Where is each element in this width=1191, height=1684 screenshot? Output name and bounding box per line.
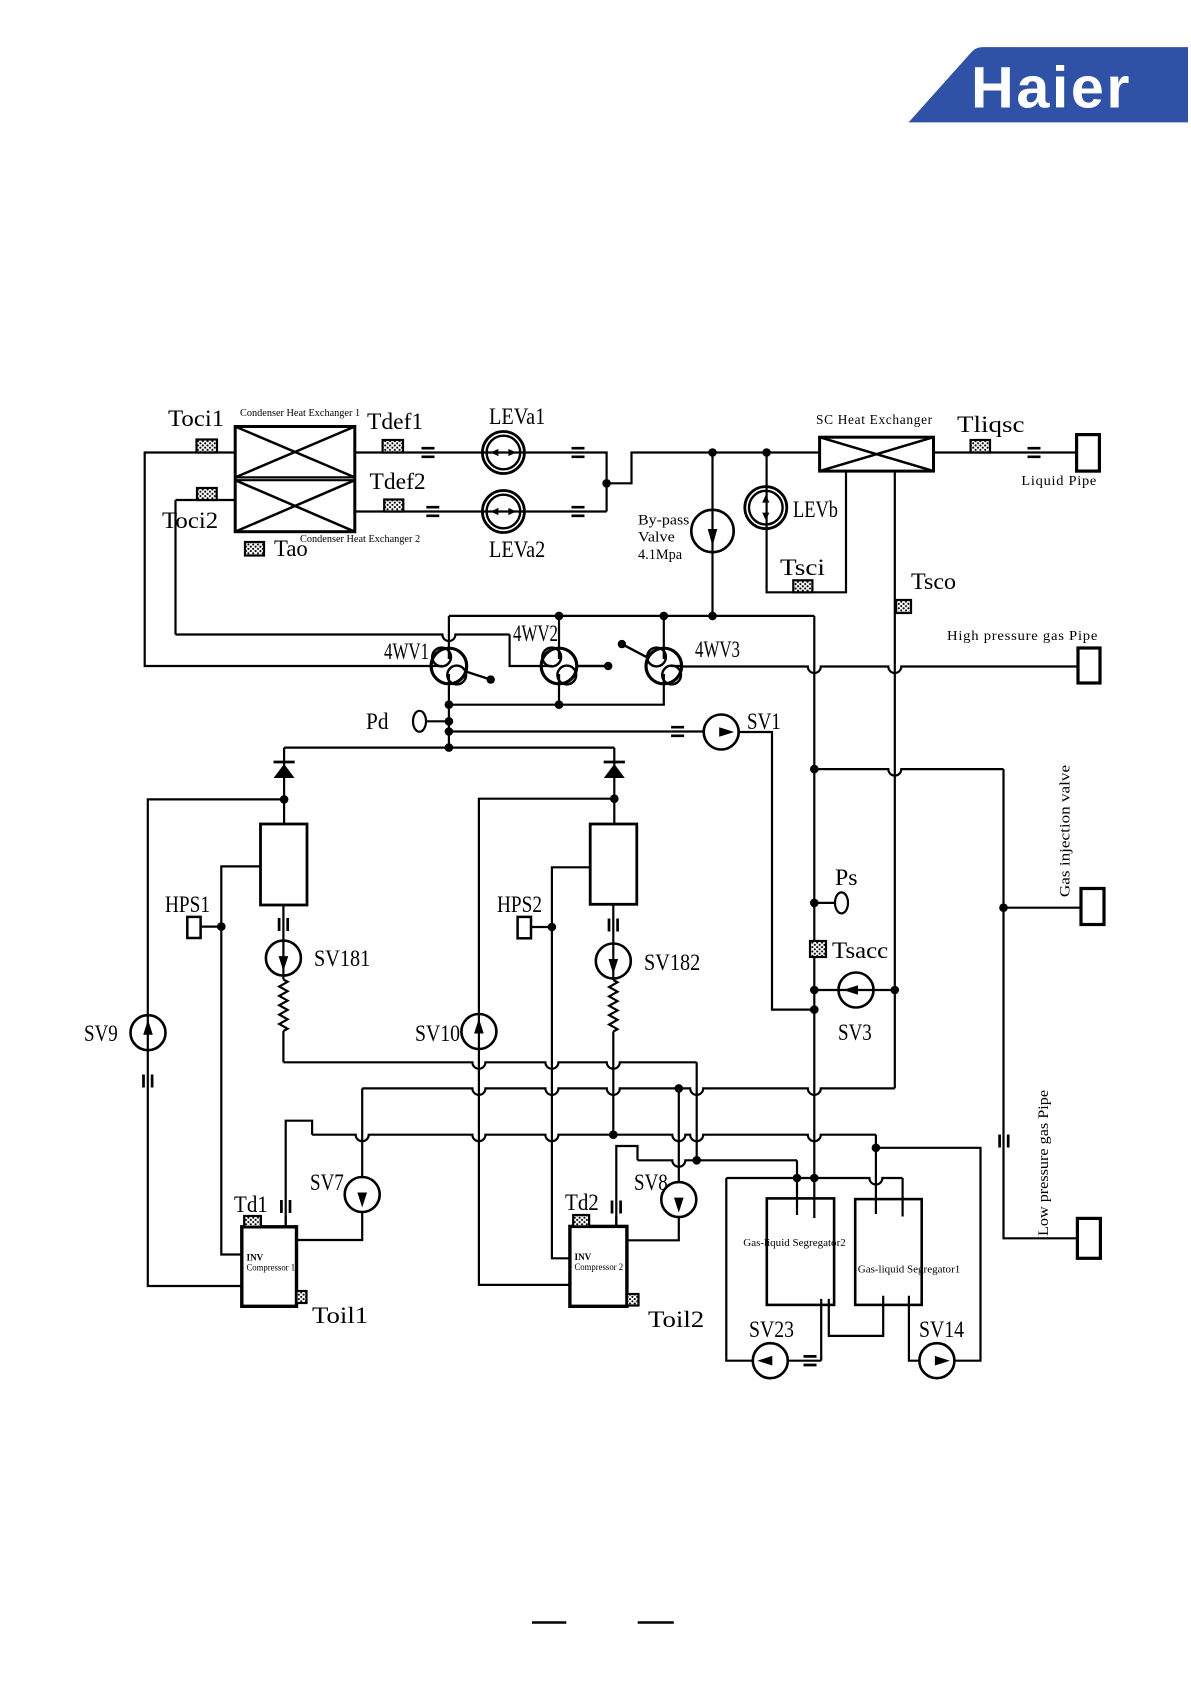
wire HPS1 drop to compressor1 [221,866,260,1254]
svg-text:LEVa2: LEVa2 [489,537,545,562]
wire by-pass valve branch [711,453,713,616]
node gas injection terminal tap [999,903,1008,912]
svg-text:Gas-liquid Segregator1: Gas-liquid Segregator1 [858,1265,961,1276]
node gas injection tap [810,765,819,774]
svg-text:Liquid Pipe: Liquid Pipe [1021,474,1097,489]
wire compressor1 discharge stub [285,1216,287,1227]
expansion valve LEVa2 [482,491,524,533]
temp sensor Tao [245,542,264,556]
capillary tube below SV182 [609,980,617,1032]
svg-text:Td1: Td1 [234,1192,268,1217]
wire 4WV2 vertical [558,616,560,705]
gas-liquid segregator 2 vessel [767,1198,834,1305]
wire SV9 branch to compressor1 [148,799,284,1286]
node SV3 right [891,986,900,995]
union before SV1 [671,727,684,736]
SC HE cross [820,437,934,471]
svg-text:SV9: SV9 [84,1021,118,1046]
wire oil return bus A [283,1062,696,1069]
union on low pressure vertical [1000,1135,1009,1148]
wire Toci2 line to 4WV2 feed [176,635,510,642]
wire bus C [312,1135,876,1142]
temp sensor Tsco [896,600,911,613]
svg-text:Compressor 1: Compressor 1 [247,1262,296,1272]
svg-text:SV23: SV23 [749,1317,794,1342]
svg-text:SV8: SV8 [634,1170,668,1195]
wire SV8 vertical [678,1088,680,1182]
wire separator1 outlet via SV181 [282,905,284,980]
svg-text:4WV3: 4WV3 [695,637,740,662]
node line D join [692,1156,701,1165]
union compressor2 discharge [612,1201,621,1214]
temp sensor Tdef1 [383,440,403,453]
4-way valve 4WV1 [431,648,495,685]
node check header [445,743,454,752]
solenoid valve SV7 [345,1177,380,1212]
svg-text:Ps: Ps [835,865,858,890]
wire compressor1 discharge step [286,1121,312,1227]
wire segregator2 right inlet pipe [813,1178,815,1218]
temp sensor Toil2 [627,1294,639,1306]
expansion valve LEVb [745,487,787,529]
wire SV8 to compressor2 right [627,1217,679,1240]
pressure sensor Pd [413,711,426,732]
wire discharge header above 4-way valves [449,615,814,617]
temp sensor Tliqsc [971,440,990,453]
wire 4WV3 top port [663,616,665,648]
wire bus C corner drop [875,1135,877,1148]
wire liquid header to SC heat exchanger [607,453,820,484]
node SV8 tap on bus B [675,1084,684,1093]
node segregator2 left inlet [793,1174,802,1183]
pressure sensor Ps [835,892,848,913]
wire Toci1 pipe to 4WV1 left port [145,453,431,667]
wire SV3 link [814,989,895,991]
node SV3 left [810,986,819,995]
wire segregator2 outlet to SV23 [820,1299,822,1361]
union above SV182 [609,919,618,932]
wire SV23 right link [787,1360,821,1362]
wire compressor2 discharge stub [615,1216,617,1226]
capillary tube below SV181 [279,980,287,1032]
pressure switch HPS1 [187,917,200,938]
wire segregator2-segregator1 bottom link [829,1296,883,1336]
INV compressor 1 body [242,1227,297,1307]
node segregator2 right inlet [810,1174,819,1183]
temp sensor Toci1 [197,440,218,453]
svg-text:Haier: Haier [971,56,1132,121]
SC heat exchanger block [820,437,934,471]
wire Ps link [815,902,835,904]
svg-text:SV7: SV7 [310,1170,344,1195]
node 4WV3 top [660,612,669,621]
node SV182 on bus C [609,1130,618,1139]
wire gas injection branch [814,769,1003,776]
svg-text:Gas injection valve: Gas injection valve [1058,765,1074,897]
low pressure gas pipe terminal [1077,1218,1100,1258]
4-way valve 4WV2 [541,648,612,685]
node SV1 return [810,1005,819,1014]
gas injection valve terminal [1081,889,1104,925]
svg-text:Pd: Pd [366,709,389,734]
solenoid valve SV8 [661,1182,696,1217]
union above SV181 [279,918,288,931]
svg-text:4.1Mpa: 4.1Mpa [638,547,682,563]
svg-text:Tliqsc: Tliqsc [957,412,1025,437]
solenoid valve SV23 [753,1343,788,1378]
svg-text:INV: INV [247,1252,264,1262]
wire to gas injection valve terminal [1004,907,1082,909]
node SV1 tap [445,727,454,736]
wire SC HE to liquid pipe terminal [934,451,1077,453]
svg-text:Toci2: Toci2 [162,508,218,533]
svg-text:Tdef1: Tdef1 [367,409,423,434]
wire HPS2 link [531,926,552,928]
wire left check valve drop to oil separator1 [283,748,285,824]
svg-text:SV1: SV1 [747,709,781,734]
wire suction bus B [362,1088,895,1095]
temp sensor Tsacc [810,941,826,957]
wire segregator2 left inlet pipe [796,1178,798,1215]
condenser HE1 cross [235,427,355,478]
union before liquid terminal [1028,448,1041,457]
node by-pass tap [708,448,717,457]
wire 4WV1 vertical through Pd node [448,616,450,748]
wire line E header [726,1178,902,1185]
svg-text:4WV2: 4WV2 [513,621,558,646]
union on Tdef1 pipe [422,448,435,457]
dash mark left [532,1621,566,1624]
solenoid valve SV3 [839,973,874,1008]
wire spring to bus A [282,1031,284,1062]
temp sensor Toci2 [197,488,217,500]
4-way valve 4WV3 [618,640,682,685]
wire condenser outlet pipes via LEVa1 LEVa2 [355,453,607,512]
svg-text:HPS2: HPS2 [497,892,542,917]
wire HPS1 link [201,925,222,927]
solenoid valve SV14 [919,1343,954,1378]
condenser heat exchanger block [235,427,355,532]
INV compressor 2 body [570,1226,627,1306]
wire 4WV bottom bus [449,684,664,705]
svg-text:Tsco: Tsco [911,569,956,594]
gas-liquid segregator 1 vessel [855,1199,922,1305]
svg-text:Td2: Td2 [565,1190,599,1215]
wire segregator1 left inlet pipe [875,1148,877,1214]
wire SV7 vertical [361,1088,363,1177]
wire line D drop [796,1160,798,1178]
svg-text:SC Heat Exchanger: SC Heat Exchanger [816,413,933,428]
svg-text:Compressor 2: Compressor 2 [575,1262,624,1272]
check valve right [604,762,625,778]
svg-text:4WV1: 4WV1 [384,639,429,664]
condenser HE2 cross [235,480,355,532]
wire gas injection / low pressure vertical [1004,769,1078,1238]
pressure switch HPS2 [518,917,531,938]
node Ps tap [810,899,819,908]
union below SV9 [144,1075,153,1088]
wire SV1 out down to node [739,732,815,1010]
solenoid valve SV181 [266,941,301,976]
wire to SV14 right side [876,1148,981,1361]
wire high pressure gas pipe line [682,667,1078,674]
dash mark right [638,1621,674,1624]
wire to SV1 [449,730,703,732]
wire HPS2 drop to compressor2 [552,867,590,1258]
node 4WV2 top [555,612,564,621]
temp sensor Td1 [244,1216,261,1227]
wire Pd sensor link [426,720,449,722]
svg-text:INV: INV [575,1252,592,1262]
svg-text:Gas-liquid Segregator2: Gas-liquid Segregator2 [743,1238,846,1249]
wire SC HE subcool outlet down to suction bus B [894,471,896,1088]
svg-text:SV14: SV14 [919,1317,964,1342]
solenoid valve SV1 [704,715,739,750]
wire separator2 outlet via SV182 [612,904,614,980]
union on Tdef2 pipe [426,507,439,516]
svg-text:Toil1: Toil1 [312,1303,368,1328]
wire Toci2 pipe down [176,500,236,635]
wire line D to segregator2 [638,1160,798,1167]
svg-text:SV3: SV3 [838,1020,872,1045]
svg-text:Valve: Valve [638,530,675,546]
high pressure gas pipe terminal [1078,648,1100,683]
wire compressor2 discharge step [616,1146,637,1226]
svg-text:SV10: SV10 [415,1021,460,1046]
svg-text:HPS1: HPS1 [165,892,210,917]
oil separator 1 [261,824,308,905]
node HPS1 tap [217,922,226,931]
svg-text:Tsacc: Tsacc [832,938,888,963]
wire main vertical to accumulator segregator2 [813,616,815,1178]
oil separator 2 [590,824,637,904]
temp sensor Tdef2 [384,500,403,512]
wire segregator1 right inlet pipe [901,1178,903,1217]
svg-text:Toil2: Toil2 [648,1307,704,1332]
node SV9 tap [280,795,289,804]
wire right check valve drop to oil separator2 [613,748,615,824]
wire spring to bus C [612,1032,614,1135]
svg-text:High pressure gas Pipe: High pressure gas Pipe [947,629,1098,644]
node 4WV2 bottom [555,700,564,709]
Haier logo banner [909,47,1188,122]
svg-text:SV181: SV181 [314,946,370,971]
wire SV10 branch to compressor2 [479,799,614,1285]
wire segregator1 outlet to SV14 [909,1296,920,1361]
svg-text:LEVa1: LEVa1 [489,404,545,429]
temp sensor Td2 [573,1215,589,1226]
by-pass valve 4.1Mpa [691,510,733,552]
temp sensor Toil1 [297,1291,307,1303]
liquid pipe terminal [1077,435,1100,472]
wire LEVb branch to SC HE bottom [767,453,846,593]
check valve left [274,762,295,778]
wire bus A drop [696,1062,698,1160]
svg-text:Tsci: Tsci [780,555,825,580]
union after LEVa1 [572,448,585,457]
svg-text:Tdef2: Tdef2 [370,469,426,494]
node SV10 tap [610,794,619,803]
temp sensor Tsci [793,580,812,592]
node segregator1 feed [872,1144,881,1153]
svg-text:Condenser Heat Exchanger 1: Condenser Heat Exchanger 1 [240,408,360,419]
union after SV23 [804,1356,817,1365]
node Pd tap [445,717,454,726]
svg-text:Condenser Heat Exchanger 2: Condenser Heat Exchanger 2 [300,534,420,545]
node HPS2 tap [548,923,557,932]
wire SV7 to compressor1 right [297,1212,363,1240]
solenoid valve SV10 [461,1014,496,1049]
svg-text:Low pressure gas Pipe: Low pressure gas Pipe [1036,1090,1052,1236]
solenoid valve SV182 [596,944,631,979]
node 4WV1 bottom [445,700,454,709]
wire check valve header [284,746,614,748]
solenoid valve SV9 [131,1015,166,1050]
union compressor1 discharge [281,1200,290,1213]
expansion valve LEVa1 [482,432,524,474]
node by-pass bottom [708,612,717,621]
condenser mid dividers [235,477,355,480]
svg-text:By-pass: By-pass [638,513,690,529]
union after LEVa2 [572,507,585,516]
svg-text:LEVb: LEVb [793,497,838,522]
svg-text:SV182: SV182 [644,950,700,975]
svg-text:Toci1: Toci1 [168,406,224,431]
node liquid header join [602,479,611,488]
node LEVb tap [762,448,771,457]
wire down to SV23 left [726,1178,753,1361]
wire feed into 4WV2 left port [510,635,542,667]
